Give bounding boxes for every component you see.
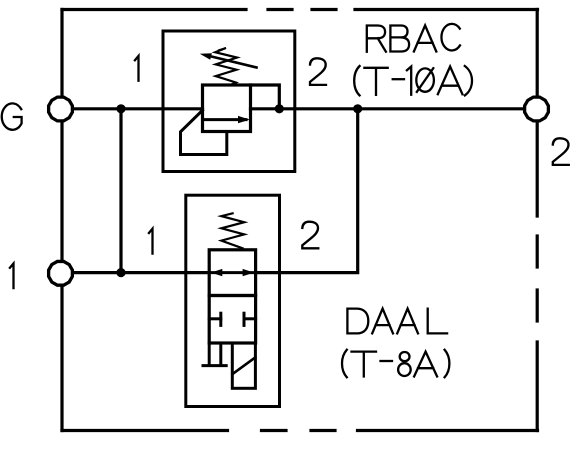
valve DAAL drain stub [203, 343, 226, 366]
valve DAAL flow path line through upper cell [209, 271, 255, 274]
valve DAAL upper cell (flow position) [209, 250, 255, 296]
valve DAAL enclosure box [186, 195, 280, 406]
label: port G [2, 103, 22, 129]
pin label 2 of DAAL [302, 222, 318, 249]
enclosure left border [60, 10, 63, 431]
label: port 1 (lower left) [10, 264, 14, 289]
valve DAAL lower cell (blocked position) [209, 296, 255, 344]
valve RBAC internal flow path arrow [203, 116, 250, 123]
junction: RBAC pilot link on outlet wire [275, 104, 284, 113]
junction: port 1 wire / tie line [116, 268, 125, 277]
value label: (T-8A) [342, 350, 449, 378]
wire: RBAC outlet to port 2 [251, 107, 525, 110]
wire: tie line port G net to port 1 net [119, 109, 122, 273]
port G circle [49, 97, 73, 121]
valve RBAC main spool square [203, 85, 251, 132]
junction: G wire / tie line [116, 104, 125, 113]
valve DAAL flow arrow right [243, 269, 254, 276]
valve RBAC pilot passage polygon [181, 110, 227, 154]
valve DAAL orifice box with diagonal [232, 343, 255, 388]
enclosure bottom border (phantom line) [62, 429, 538, 432]
valve DAAL spring [221, 213, 244, 248]
valve DAAL blocked port symbol left [209, 313, 221, 325]
wire: port 1 to DAAL inlet [60, 271, 209, 274]
wire: port G to RBAC inlet [60, 107, 203, 110]
enclosure right border (phantom line) [536, 10, 539, 431]
value label: (T-10A) [354, 66, 472, 95]
junction: DAAL outlet on port 2 wire [353, 104, 362, 113]
valve DAAL blocked port symbol right [244, 313, 256, 325]
valve RBAC spring [215, 48, 237, 85]
valve RBAC outlet-to-spring chamber link wire [251, 85, 280, 109]
valve RBAC enclosure box [163, 31, 295, 172]
pin label 1 of DAAL [149, 229, 153, 254]
valve RBAC adjustment arrow [200, 53, 257, 67]
valve DAAL flow arrow left [211, 269, 222, 276]
pin label 2 of RBAC [310, 58, 326, 85]
value label: RBAC [367, 24, 460, 52]
label: port 2 (right) [553, 138, 569, 165]
value label: DAAL [347, 309, 447, 334]
wire: DAAL outlet to node 2 [256, 109, 358, 273]
enclosure top border (phantom line) [62, 8, 538, 11]
port 1 circle [49, 261, 73, 285]
pin label 1 of RBAC [135, 56, 139, 81]
port 2 circle [525, 97, 549, 121]
